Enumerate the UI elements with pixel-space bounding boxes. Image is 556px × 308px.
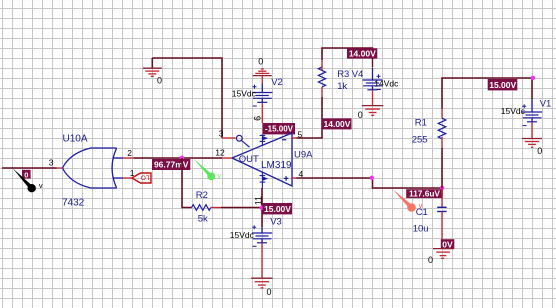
svg-text:96.77mV: 96.77mV [154, 160, 189, 170]
wire: R1 top to V1 [442, 78, 532, 109]
DC source V4 [362, 58, 382, 106]
bias voltage box 117.6uV [406, 189, 443, 199]
digital LO flag at gate pin 1 [132, 173, 151, 183]
wire: gate pin2 to LM319 OUT (96.77mV net) [134, 157, 223, 159]
ground 0 below V4 [358, 106, 384, 120]
wire: ground to LM319 pin 3 [152, 58, 222, 138]
svg-text:255: 255 [412, 135, 428, 146]
svg-text:14Vdc: 14Vdc [374, 79, 399, 89]
comparator U9A LM319 triangle [232, 133, 292, 186]
digital state box 0 on left net [22, 170, 31, 180]
junction node at V1 corner [531, 76, 535, 80]
svg-text:1k: 1k [337, 81, 347, 92]
ground 0 above V2 (rotated) [253, 56, 272, 83]
svg-text:OUT: OUT [239, 154, 259, 165]
voltage probe (black) on left net [13, 168, 43, 192]
svg-text:12: 12 [215, 148, 225, 158]
junction node at V3 top [260, 206, 264, 210]
svg-text:7432: 7432 [62, 198, 85, 209]
capacitor C1 [437, 207, 446, 211]
svg-text:14.00V: 14.00V [349, 49, 376, 59]
minus input mark [282, 139, 286, 141]
svg-text:6: 6 [252, 116, 262, 121]
LM319 pin 3 stub and G bubble [222, 135, 250, 147]
ground 0 below V3 [251, 278, 272, 297]
svg-text:15Vdc: 15Vdc [230, 230, 255, 240]
bias voltage box 96.77mV [152, 159, 190, 170]
bias voltage box 15.00V (pin 11 net) [263, 203, 293, 214]
resistor R3 [318, 60, 325, 97]
DC source V3 [252, 225, 272, 278]
svg-text:R2: R2 [196, 190, 208, 201]
svg-text:0: 0 [24, 170, 28, 179]
bias voltage box -15.00V (pin 6 net) [263, 123, 296, 134]
svg-text:15.00V: 15.00V [489, 80, 516, 90]
svg-text:V3: V3 [270, 216, 282, 227]
svg-text:3: 3 [219, 128, 224, 138]
wire: left input net to OR gate output [2, 167, 57, 169]
svg-text:0: 0 [428, 255, 433, 265]
pin 12 OUT stub [222, 157, 232, 159]
svg-text:R1: R1 [415, 118, 427, 129]
ground 0 below C1 [428, 249, 453, 266]
svg-text:0: 0 [267, 287, 272, 297]
svg-text:V4: V4 [352, 69, 364, 80]
svg-text:0: 0 [258, 56, 263, 66]
OR gate U10A (7432), mirrored, output at left [57, 148, 134, 188]
svg-text:2: 2 [127, 148, 132, 158]
bias voltage box 0V [441, 239, 455, 249]
wire: R2 to V3 top node [221, 207, 262, 209]
wire: R1 bottom to junction [441, 148, 443, 188]
plus input mark [284, 176, 289, 181]
wire: pin 11 node down to V3, with junction [261, 188, 263, 227]
voltage probe (green) on OUT net [194, 159, 222, 181]
LM319 pin 11 with power ticks [260, 172, 267, 188]
svg-text:5k: 5k [198, 214, 208, 225]
pin 4 stub [292, 177, 297, 179]
svg-text:U10A: U10A [63, 134, 88, 145]
svg-text:0V: 0V [442, 239, 453, 249]
R2 right pin stub [211, 207, 221, 209]
svg-text:14.00V: 14.00V [324, 119, 351, 129]
svg-text:117.6uV: 117.6uV [409, 189, 440, 199]
svg-text:10u: 10u [413, 224, 429, 235]
bias voltage box 14.00V (V4 plus net) [347, 48, 377, 58]
wire: junction down to C1 [441, 188, 443, 207]
LM319 pin 6 with power ticks [260, 134, 267, 145]
ground 0 (top left) [143, 58, 162, 85]
wire: OUT net down to R2 [182, 158, 192, 208]
svg-text:LM319: LM319 [261, 160, 292, 171]
svg-text:15Vdc: 15Vdc [232, 89, 257, 99]
svg-text:0: 0 [358, 110, 363, 120]
junction node on OUT net [180, 156, 184, 160]
svg-text:15Vdc: 15Vdc [501, 106, 526, 116]
wire: pin 5 to R3 bottom, with bias box [297, 97, 323, 138]
DC source V2 [252, 84, 272, 124]
junction node at R1/C1 [440, 186, 444, 190]
svg-text:R3: R3 [337, 69, 349, 80]
pin 5 stub [292, 137, 297, 139]
wire: R3 top to V4 [322, 48, 373, 60]
svg-text:0: 0 [537, 146, 542, 156]
svg-text:C1: C1 [416, 207, 428, 218]
svg-text:V1: V1 [540, 99, 552, 110]
svg-text:-15.00V: -15.00V [265, 125, 294, 134]
wire: C1 bottom to ground [441, 212, 443, 249]
svg-text:0: 0 [157, 75, 162, 85]
svg-text:15.00V: 15.00V [264, 204, 291, 214]
junction node on pin 4 net [370, 176, 374, 180]
bias voltage box 14.00V (pin 5 net) [322, 118, 352, 129]
resistor R1 [438, 109, 446, 149]
voltage probe (red) on C1 net [393, 189, 423, 212]
wire: pin 4 to C1/R1 node [297, 178, 443, 188]
bias voltage box 15.00V (V1 net) [488, 79, 518, 90]
svg-text:v: v [39, 181, 43, 190]
DC source V1 [522, 99, 542, 138]
svg-text:LO: LO [141, 173, 150, 180]
svg-text:U9A: U9A [294, 149, 313, 160]
resistor R2 zigzag [192, 205, 211, 211]
ground 0 below V1 [522, 139, 542, 157]
svg-text:v: v [218, 173, 222, 180]
svg-text:3: 3 [49, 157, 54, 167]
svg-text:V2: V2 [271, 77, 283, 88]
